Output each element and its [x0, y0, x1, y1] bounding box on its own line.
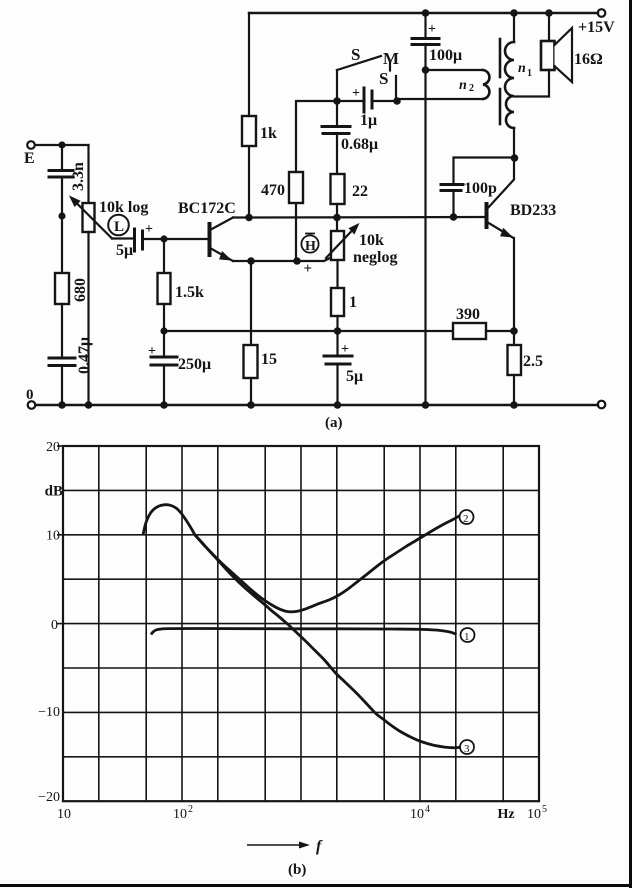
- ground rail junction dots: [58, 401, 518, 409]
- wire E to pot branch: [35, 144, 89, 146]
- terminal +15V: [578, 9, 615, 36]
- potentiometer 10k neglog: [326, 224, 397, 266]
- svg-text:Hz: Hz: [497, 807, 514, 822]
- svg-text:15: 15: [261, 351, 277, 368]
- wire 1.5k to node: [163, 304, 165, 331]
- svg-text:100p: 100p: [464, 180, 497, 197]
- svg-text:BC172C: BC172C: [178, 200, 236, 217]
- wire base line BC172C collector to BD233: [249, 216, 486, 219]
- capacitor 1u: [352, 86, 377, 129]
- svg-text:5μ: 5μ: [116, 242, 133, 259]
- resistor 1.5k: [158, 273, 205, 304]
- wire node C down to ground rail: [424, 70, 426, 405]
- curve marker 1: [461, 628, 475, 643]
- terminal 0 left: [26, 387, 35, 409]
- resistor 15: [244, 345, 278, 378]
- resistor 680: [55, 273, 89, 304]
- node C 100u/n2 top: [422, 66, 430, 74]
- wire feedback run: [164, 330, 453, 332]
- resistor 1k: [242, 116, 277, 146]
- curve marker 3: [460, 740, 474, 755]
- svg-text:390: 390: [456, 306, 480, 323]
- node A switch/1u junction: [333, 97, 341, 105]
- wire 2.5 to ground rail: [513, 375, 515, 405]
- svg-text:1: 1: [464, 631, 470, 643]
- wire 100u to node C: [424, 44, 426, 70]
- resistor 470: [261, 172, 303, 203]
- wire node C to n2 top lead: [426, 69, 484, 71]
- svg-text:10k log: 10k log: [99, 199, 148, 216]
- svg-text:−20: −20: [38, 790, 60, 805]
- svg-text:10: 10: [527, 807, 541, 822]
- wire pot to resistor 1: [336, 260, 338, 288]
- wire 0.68u to 22: [336, 133, 338, 174]
- terminal right: [598, 401, 606, 409]
- svg-text:+: +: [145, 222, 153, 237]
- switch S-M blade: [337, 45, 399, 101]
- curve marker 2: [460, 510, 474, 525]
- svg-text:1k: 1k: [260, 125, 277, 142]
- svg-text:10: 10: [410, 807, 424, 822]
- node 22/pot/base line: [333, 214, 341, 222]
- svg-text:3: 3: [464, 743, 470, 755]
- svg-text:(b): (b): [288, 862, 306, 878]
- svg-text:5μ: 5μ: [346, 368, 363, 385]
- svg-text:L: L: [114, 219, 124, 235]
- wire node B to n2 winding: [397, 98, 483, 100]
- node 3.3n/680 junction: [58, 212, 65, 219]
- svg-text:f: f: [316, 838, 323, 855]
- wire 250u to ground rail: [163, 365, 165, 405]
- svg-text:3.3n: 3.3n: [70, 162, 87, 191]
- svg-text:S: S: [379, 69, 388, 88]
- capacitor 5u feedback: [324, 342, 363, 385]
- svg-text:+: +: [304, 261, 313, 277]
- svg-text:10: 10: [46, 529, 60, 544]
- switch pole riser: [336, 70, 338, 101]
- svg-text:250μ: 250μ: [178, 356, 211, 373]
- node collector BC172C: [245, 214, 253, 222]
- node emitter/470 junction: [293, 257, 301, 265]
- wire 680 to C 0.47u: [61, 304, 63, 357]
- svg-text:0: 0: [51, 618, 58, 633]
- wire node to C 250u: [163, 331, 165, 356]
- wire emitter node down to 15: [250, 261, 252, 345]
- wire emitter BD233 down: [513, 238, 515, 331]
- wire 0.47u to ground rail: [61, 365, 63, 405]
- input terminal E: [24, 141, 35, 167]
- svg-text:4: 4: [425, 804, 430, 815]
- wire 100p to base node: [452, 191, 454, 217]
- svg-text:S: S: [351, 45, 360, 64]
- node 100u top rail: [422, 9, 430, 17]
- node emitter BC172C: [247, 257, 255, 265]
- wire node to 2.5: [513, 331, 515, 345]
- capacitor 0.68u: [322, 127, 378, 154]
- svg-text:5: 5: [542, 804, 547, 815]
- resistor 1: [331, 288, 357, 316]
- svg-text:2: 2: [469, 83, 474, 94]
- svg-text:+: +: [148, 344, 156, 359]
- wire node A to 1u: [337, 100, 364, 102]
- winding n2: [459, 70, 489, 99]
- node n1 top rail: [510, 9, 518, 17]
- node base BD233: [450, 213, 458, 221]
- curve 3 treble cut: [195, 535, 460, 748]
- svg-text:0.47μ: 0.47μ: [76, 337, 93, 374]
- wire 1k to +15V rail: [248, 13, 250, 116]
- svg-text:(a): (a): [325, 415, 343, 431]
- wire n1 bottom to collector BD233: [513, 128, 515, 158]
- wire pot bottom to ground rail: [87, 232, 89, 405]
- dial symbol L circled: [108, 215, 129, 236]
- wire node down to C 5u bottom: [336, 331, 338, 355]
- curve 1 flat response: [151, 629, 457, 635]
- svg-text:2: 2: [188, 804, 193, 815]
- svg-text:10k: 10k: [359, 232, 384, 249]
- svg-text:+: +: [428, 22, 436, 37]
- wire base node down to 1.5k: [163, 239, 165, 273]
- node feedback junction: [334, 327, 342, 335]
- wire 3.3n to node: [61, 177, 63, 216]
- svg-text:+15V: +15V: [578, 19, 615, 36]
- svg-text:H: H: [305, 239, 316, 254]
- capacitor 100p: [441, 180, 497, 197]
- svg-text:2.5: 2.5: [523, 353, 543, 370]
- resistor 22: [331, 174, 369, 204]
- svg-text:+: +: [341, 342, 349, 357]
- grid horizontal lines: [63, 490, 539, 756]
- curve 2 loudness: [195, 516, 460, 612]
- page border right: [629, 0, 632, 888]
- wire 1u to node B: [372, 100, 397, 102]
- resistor 2.5: [508, 345, 544, 375]
- svg-text:1: 1: [349, 294, 357, 311]
- wire input node down to C 3.3n: [61, 145, 63, 169]
- wire emitter run: [233, 260, 297, 262]
- svg-text:BD233: BD233: [510, 202, 556, 219]
- capacitor 3.3n: [49, 162, 87, 191]
- y axis labels: [38, 440, 63, 805]
- wire speaker bottom lead: [548, 70, 550, 96]
- svg-text:20: 20: [46, 440, 60, 455]
- capacitor 5u input: [116, 222, 153, 259]
- svg-text:10: 10: [173, 807, 187, 822]
- test point H circled: [301, 234, 318, 278]
- svg-text:dB: dB: [45, 484, 63, 500]
- +15V supply rail: [249, 12, 598, 14]
- wire 1 to feedback node: [336, 316, 338, 331]
- svg-text:neglog: neglog: [353, 249, 397, 266]
- node base of BC172C: [160, 235, 167, 242]
- transistor Q1 BC172C: [164, 200, 236, 261]
- page border bottom: [0, 884, 632, 887]
- winding n1: [505, 13, 532, 128]
- frequency arrow: [247, 838, 323, 855]
- svg-text:16Ω: 16Ω: [574, 51, 603, 68]
- wire n1 tap to speaker: [514, 95, 549, 97]
- transformer core: [499, 39, 502, 124]
- speaker 16 ohm: [541, 28, 603, 82]
- ground rail: [36, 404, 599, 406]
- svg-text:0: 0: [26, 387, 34, 403]
- svg-text:680: 680: [72, 278, 89, 302]
- wire node to resistor 680: [61, 216, 63, 273]
- transistor Q2 BD233: [487, 158, 557, 238]
- node input junction: [58, 141, 65, 148]
- node B 1u/n2 junction: [393, 97, 401, 105]
- wire 5u to ground rail: [336, 364, 338, 405]
- svg-text:10: 10: [57, 807, 71, 822]
- wiper wire to C 5u: [112, 237, 134, 239]
- svg-text:0.68μ: 0.68μ: [341, 136, 378, 153]
- curve 2-3 common low side: [143, 505, 195, 535]
- svg-text:100μ: 100μ: [429, 47, 462, 64]
- wire emitter node to pot bottom: [297, 257, 338, 262]
- node emitter/390/2.5: [510, 327, 518, 335]
- wire 22 to base line node: [336, 204, 338, 231]
- capacitor 100u: [412, 22, 462, 64]
- svg-text:n: n: [459, 78, 467, 93]
- svg-text:n: n: [518, 61, 526, 76]
- resistor 390: [453, 306, 514, 339]
- grid border: [63, 446, 539, 801]
- svg-text:1.5k: 1.5k: [175, 284, 204, 301]
- potentiometer 10k log: [70, 197, 148, 239]
- node collector BD233: [511, 154, 519, 162]
- svg-text:−10: −10: [38, 705, 60, 720]
- svg-text:1μ: 1μ: [360, 112, 377, 129]
- capacitor 0.47u: [49, 337, 93, 374]
- wire collector to 1k: [233, 146, 249, 218]
- wire 5u to base node: [143, 238, 165, 240]
- axis ticks left: [57, 446, 63, 624]
- potentiometer 10k log branch wire: [87, 145, 89, 203]
- svg-text:22: 22: [352, 183, 368, 200]
- node 1.5k/250u junction: [160, 327, 167, 334]
- wire node A down to 0.68u: [336, 101, 338, 125]
- grid vertical lines: [99, 446, 503, 801]
- wire 15 to ground rail: [250, 378, 252, 405]
- wire collector to 100p: [454, 158, 515, 184]
- svg-text:1: 1: [527, 68, 532, 79]
- node speaker top rail: [545, 9, 553, 17]
- svg-text:470: 470: [261, 182, 285, 199]
- svg-text:E: E: [24, 150, 35, 167]
- svg-text:+: +: [352, 86, 360, 101]
- x axis labels: [57, 804, 547, 822]
- wire 470 top to node A: [296, 101, 337, 172]
- svg-text:2: 2: [463, 513, 469, 525]
- wire rail to speaker: [548, 13, 550, 41]
- wire rail to 100u: [424, 13, 426, 37]
- capacitor 250u: [148, 344, 211, 373]
- wire 470 down to emitter node: [295, 203, 297, 261]
